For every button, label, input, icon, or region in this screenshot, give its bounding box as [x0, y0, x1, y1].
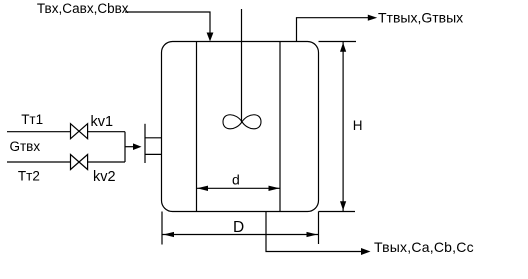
D extension right: [318, 212, 320, 245]
H arrow down: [340, 201, 346, 210]
svg-text:Твх,Савх,Сbвх: Твх,Савх,Сbвх: [37, 1, 129, 16]
dimension line D: [162, 234, 319, 236]
junction riser pipe: [124, 132, 126, 162]
feed arrow right: [133, 143, 142, 150]
valve kv1: [71, 124, 88, 139]
feed stub pipe: [125, 146, 134, 148]
nozzle flange: [144, 124, 146, 163]
svg-text:Ттвых,Gтвых: Ттвых,Gтвых: [378, 9, 463, 25]
svg-text:d: d: [232, 172, 240, 188]
pipe from valve kv2: [88, 161, 125, 163]
D arrow right: [307, 232, 318, 237]
outlet pipe top-right: [297, 18, 369, 42]
svg-text:Тт1: Тт1: [21, 112, 43, 127]
svg-text:H: H: [353, 118, 363, 133]
nozzle wall lower: [145, 153, 162, 155]
nozzle wall upper: [145, 137, 162, 139]
inner wall left: [196, 42, 198, 212]
valve kv2: [71, 155, 88, 170]
pipe from valve kv1: [88, 131, 125, 133]
d arrow left: [197, 186, 208, 191]
svg-text:Gтвх: Gтвх: [10, 139, 41, 154]
svg-text:kv1: kv1: [91, 114, 114, 130]
stirrer impeller: [223, 115, 261, 129]
svg-text:D: D: [233, 219, 244, 236]
pipe to valve kv1: [7, 131, 71, 133]
svg-text:Тт2: Тт2: [18, 168, 40, 183]
d arrow right: [269, 186, 280, 191]
inner wall right: [279, 42, 281, 212]
extension line top-right: [319, 41, 357, 43]
D extension left: [161, 212, 163, 245]
pipe to valve kv2: [7, 161, 71, 163]
D arrow left: [163, 232, 174, 237]
outlet arrow right: [368, 15, 377, 21]
outlet arrow bottom right: [361, 248, 371, 255]
extension line bottom-right: [319, 211, 356, 213]
inlet arrow down: [207, 33, 214, 42]
H arrow up: [340, 43, 346, 52]
svg-text:kv2: kv2: [93, 169, 116, 185]
inlet pipe top: [125, 12, 210, 33]
stirrer shaft: [241, 9, 243, 122]
dimension line d: [197, 187, 280, 189]
vessel tank body: [162, 42, 319, 212]
dimension line H: [342, 42, 344, 212]
svg-text:Твых,Са,Сb,Сс: Твых,Са,Сb,Сс: [374, 239, 474, 255]
outlet pipe bottom: [266, 212, 362, 252]
